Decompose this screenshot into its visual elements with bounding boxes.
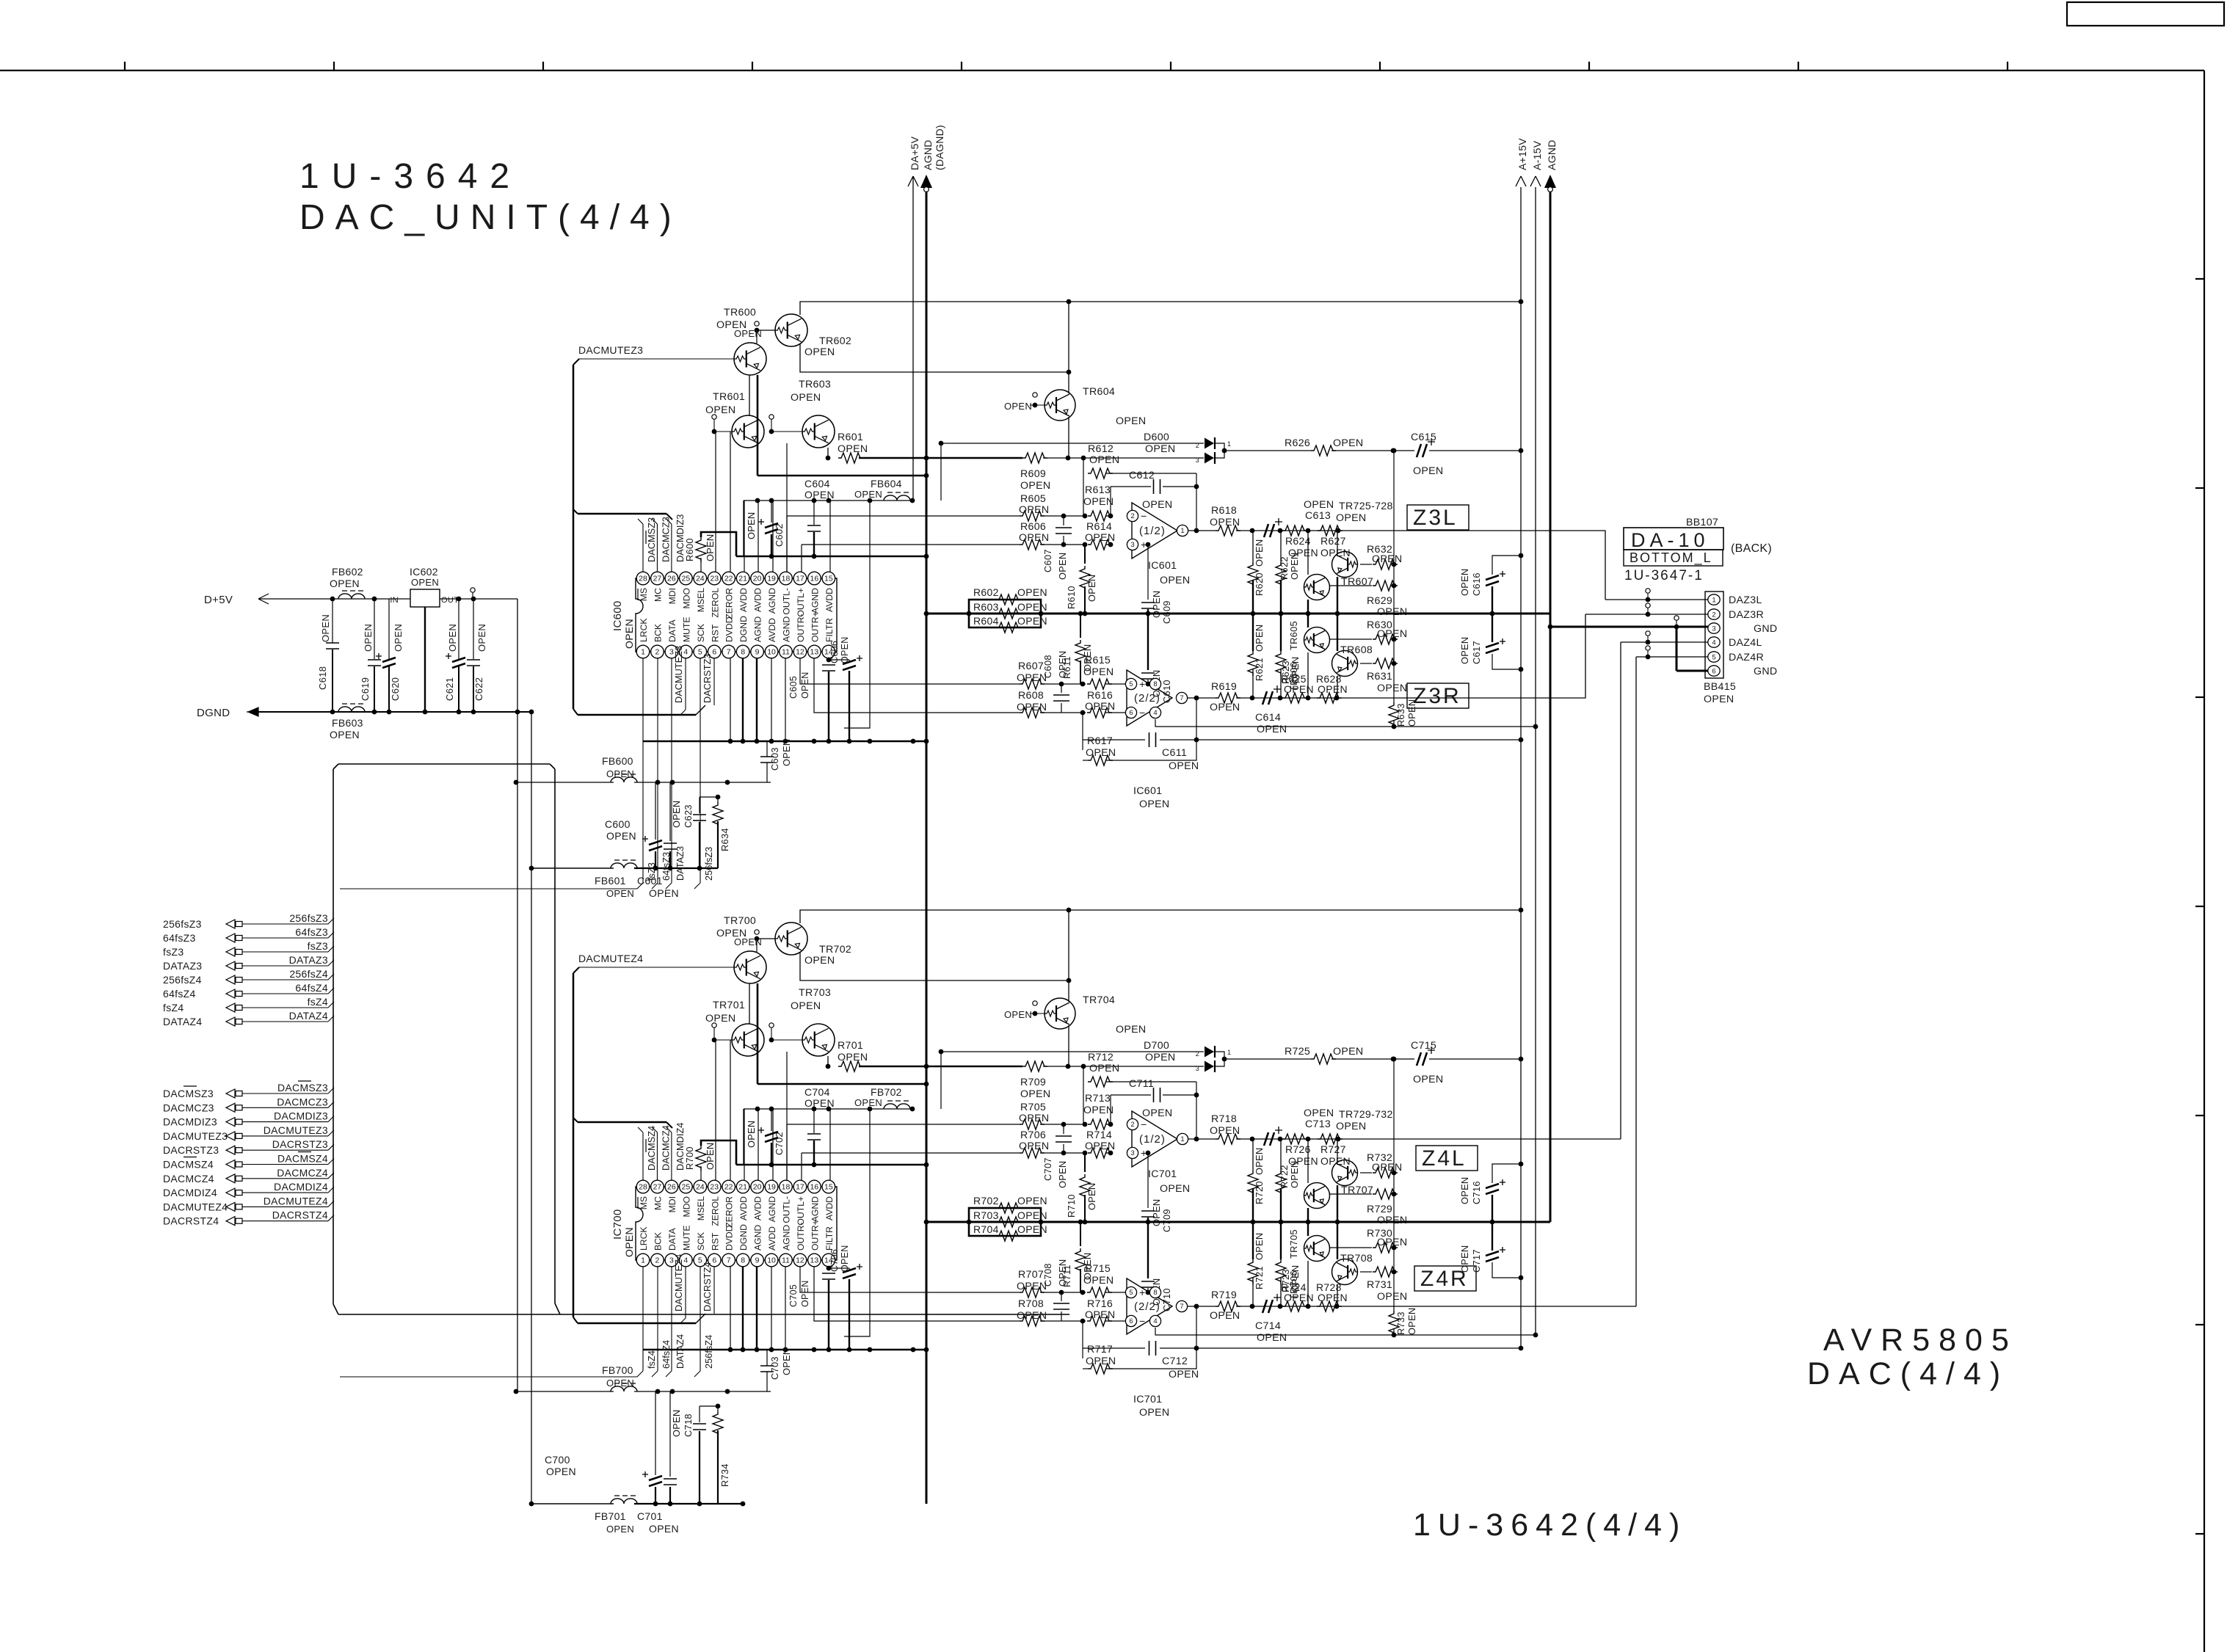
- svg-text:R619: R619: [1211, 681, 1237, 693]
- svg-text:R634: R634: [719, 828, 730, 851]
- ferrite FB700: [516, 1391, 614, 1392]
- power arrow DA+5V: [912, 176, 914, 501]
- svg-text:OPEN: OPEN: [1160, 1183, 1190, 1195]
- svg-text:fsZ4: fsZ4: [163, 1002, 184, 1014]
- resistor R606: [1020, 539, 1045, 550]
- svg-text:MSEL: MSEL: [696, 588, 706, 612]
- svg-text:OPEN: OPEN: [1169, 1369, 1199, 1380]
- op-amp IC701 (2/2): [1127, 1278, 1172, 1334]
- thick rail under R600: [736, 556, 926, 558]
- no-connect at IC602 out: [471, 588, 475, 592]
- svg-text:R716: R716: [1087, 1298, 1113, 1310]
- svg-text:OPEN: OPEN: [606, 1524, 634, 1535]
- svg-text:DATAZ4: DATAZ4: [163, 1016, 202, 1027]
- pin 7 IC700: [722, 1253, 735, 1267]
- svg-text:10: 10: [767, 648, 776, 657]
- svg-text:−: −: [1139, 1316, 1146, 1328]
- trunk branch to DACM nets: [578, 513, 666, 515]
- pin 26 IC700: [665, 1180, 678, 1193]
- svg-text:+: +: [1139, 679, 1146, 691]
- svg-text:1: 1: [1180, 527, 1184, 535]
- svg-text:DACRSTZ4: DACRSTZ4: [702, 1262, 713, 1311]
- pin 3 IC600: [665, 645, 678, 658]
- ferrite bead FB702: [884, 1104, 910, 1109]
- svg-text:23: 23: [710, 1183, 719, 1192]
- wire pin19-15 up: [772, 501, 774, 572]
- svg-text:DATAZ3: DATAZ3: [675, 846, 686, 881]
- power arrow AGND right: [1550, 187, 1552, 1222]
- FB rail: [744, 1108, 912, 1110]
- svg-text:25: 25: [682, 1183, 691, 1192]
- svg-text:OPEN: OPEN: [1704, 694, 1734, 705]
- svg-text:5: 5: [1712, 654, 1715, 662]
- svg-text:DAZ4R: DAZ4R: [1729, 652, 1764, 663]
- svg-text:OPEN: OPEN: [1086, 575, 1097, 602]
- svg-text:MDI: MDI: [667, 588, 677, 604]
- svg-text:A-15V: A-15V: [1531, 140, 1543, 170]
- svg-text:9: 9: [755, 1256, 760, 1265]
- capacitor C609: [1147, 545, 1149, 600]
- pin 22 IC600: [722, 572, 735, 585]
- svg-text:R710: R710: [1066, 1194, 1077, 1218]
- svg-text:64fsZ4: 64fsZ4: [163, 988, 196, 1000]
- net DACMCZ4: [656, 1132, 658, 1180]
- svg-text:R633: R633: [1395, 703, 1406, 727]
- svg-text:28: 28: [639, 1183, 647, 1192]
- capacitor C714: [1263, 1300, 1267, 1313]
- svg-text:DAZ3R: DAZ3R: [1729, 609, 1764, 621]
- svg-text:DACMCZ4: DACMCZ4: [660, 1125, 671, 1171]
- diode D600: [941, 443, 1204, 444]
- svg-text:OPEN: OPEN: [854, 1097, 882, 1108]
- wire TR602 emitter: [800, 952, 1069, 980]
- svg-text:256fsZ4: 256fsZ4: [703, 1335, 714, 1369]
- capacitor C600: [655, 782, 656, 840]
- resistor R629: [1329, 585, 1372, 586]
- svg-text:13: 13: [810, 1256, 819, 1265]
- svg-text:DACRSTZ4: DACRSTZ4: [163, 1215, 219, 1227]
- svg-text:R609: R609: [1020, 468, 1046, 480]
- svg-text:2: 2: [1130, 512, 1134, 520]
- wire DACMUTEZ3 to TR601 base: [579, 358, 734, 360]
- pin 13 IC700: [808, 1253, 821, 1267]
- svg-text:OPEN: OPEN: [1017, 1310, 1047, 1322]
- svg-text:64fsZ3: 64fsZ3: [295, 926, 328, 938]
- svg-text:OPEN: OPEN: [800, 672, 810, 699]
- svg-text:C614: C614: [1255, 712, 1281, 724]
- svg-text:C703: C703: [769, 1356, 780, 1380]
- pin 6 IC600: [708, 645, 721, 658]
- svg-text:1: 1: [1227, 440, 1231, 448]
- svg-text:C712: C712: [1162, 1356, 1188, 1367]
- svg-text:3: 3: [1196, 1065, 1199, 1072]
- net DACMCZ3: [656, 524, 658, 572]
- svg-text:2: 2: [1196, 1050, 1199, 1058]
- svg-text:AGND: AGND: [753, 1225, 763, 1251]
- collector bus vertical x1899: [1393, 451, 1395, 702]
- wire pin19-15 up: [772, 1109, 774, 1180]
- resistor R720: [1252, 1139, 1254, 1171]
- connector DA-10 box: [1624, 528, 1723, 550]
- svg-text:R615: R615: [1085, 655, 1111, 666]
- capacitor C620: [388, 599, 390, 659]
- resistor R725: [1240, 1058, 1311, 1060]
- svg-text:1: 1: [641, 1256, 645, 1265]
- resistor R630: [1329, 638, 1372, 640]
- svg-text:DACMUTEZ3: DACMUTEZ3: [264, 1124, 328, 1136]
- svg-text:IC701: IC701: [1148, 1168, 1177, 1180]
- svg-text:R707: R707: [1018, 1269, 1044, 1281]
- resistor R614: [1088, 539, 1113, 550]
- svg-text:256fsZ4: 256fsZ4: [289, 968, 328, 980]
- svg-text:C609: C609: [1161, 600, 1172, 624]
- svg-text:BCK: BCK: [653, 1232, 663, 1251]
- svg-text:TR601: TR601: [713, 391, 745, 403]
- svg-text:4: 4: [1153, 709, 1157, 717]
- svg-text:1: 1: [1180, 1135, 1184, 1143]
- svg-text:OPEN: OPEN: [1336, 512, 1366, 524]
- svg-text:OPEN: OPEN: [1284, 1292, 1314, 1303]
- pin7-11 wires down: [730, 658, 731, 741]
- wire pin17 OUTL+ to row A2: [801, 1153, 802, 1180]
- svg-text:OUTL+: OUTL+: [796, 1196, 806, 1226]
- svg-text:OPEN: OPEN: [1116, 415, 1146, 427]
- svg-text:1: 1: [641, 648, 645, 657]
- svg-text:R722: R722: [1279, 1165, 1290, 1188]
- net DACRSTZ3 pin6: [713, 658, 715, 705]
- wire IC602 ground lead: [424, 607, 426, 712]
- svg-text:DA-10: DA-10: [1631, 529, 1710, 551]
- capacitor C711 feedback: [1110, 1095, 1111, 1124]
- pin 3 BB415 GND: [1708, 623, 1720, 633]
- svg-text:R715: R715: [1085, 1263, 1111, 1275]
- svg-text:DA+5V: DA+5V: [909, 136, 920, 170]
- wire pin21-20 up to rail: [758, 1109, 759, 1180]
- svg-text:FB600: FB600: [602, 755, 633, 767]
- pin 6 IC700: [708, 1253, 721, 1267]
- svg-text:R731: R731: [1367, 1279, 1392, 1291]
- svg-text:R626: R626: [1285, 437, 1310, 449]
- capacitor C703: [766, 1350, 768, 1366]
- svg-text:fsZ3: fsZ3: [646, 862, 657, 881]
- svg-text:OPEN: OPEN: [705, 1013, 735, 1025]
- svg-text:OPEN: OPEN: [1004, 401, 1032, 412]
- svg-text:OPEN: OPEN: [781, 1348, 792, 1375]
- svg-text:OPEN: OPEN: [411, 577, 439, 588]
- svg-text:R709: R709: [1020, 1077, 1046, 1088]
- svg-text:OPEN: OPEN: [1083, 666, 1113, 678]
- svg-text:7: 7: [727, 1256, 731, 1265]
- ferrite FB600: [516, 782, 614, 783]
- resistor R733: [1389, 1311, 1399, 1336]
- svg-text:OPEN: OPEN: [671, 1410, 682, 1437]
- capacitor on pin16 rail: [813, 501, 815, 525]
- resistor R627: [1318, 525, 1343, 536]
- transistor TR704: [1045, 998, 1075, 1029]
- capacitor C701: [669, 1391, 671, 1477]
- capacitor C710: [1147, 1222, 1149, 1278]
- svg-text:OPEN: OPEN: [1257, 724, 1287, 735]
- svg-text:OPEN: OPEN: [1004, 1009, 1032, 1020]
- svg-text:OPEN: OPEN: [1019, 1113, 1049, 1124]
- svg-text:24: 24: [696, 1183, 705, 1192]
- svg-text:1U-3642: 1U-3642: [299, 157, 522, 196]
- svg-text:C615: C615: [1411, 432, 1436, 443]
- wire DGND rail: [258, 711, 531, 713]
- svg-text:AVR5805: AVR5805: [1823, 1322, 2018, 1358]
- svg-text:OPEN: OPEN: [1210, 1310, 1240, 1322]
- svg-text:OUTR+: OUTR+: [810, 611, 820, 642]
- pin 19 IC600: [765, 572, 778, 585]
- svg-text:DACRSTZ3: DACRSTZ3: [702, 653, 713, 703]
- svg-text:256fsZ3: 256fsZ3: [289, 912, 328, 924]
- pin 10 IC700: [765, 1253, 778, 1267]
- IC IC600 body: [636, 578, 837, 652]
- svg-text:TR708: TR708: [1340, 1253, 1373, 1265]
- svg-text:OPEN: OPEN: [1257, 1332, 1287, 1344]
- pin 21 IC700: [736, 1180, 749, 1193]
- wire D+5V vertical bus: [517, 599, 518, 1391]
- svg-text:OPEN: OPEN: [1089, 1063, 1119, 1074]
- svg-text:8: 8: [741, 1256, 745, 1265]
- svg-text:(BACK): (BACK): [1731, 542, 1772, 555]
- svg-text:15: 15: [824, 1183, 833, 1192]
- pin 5 IC700: [694, 1253, 707, 1267]
- svg-text:6: 6: [712, 648, 716, 657]
- net DACRSTZ4 pin6: [713, 1267, 715, 1314]
- resistor R711: [1080, 1222, 1081, 1246]
- svg-text:OPEN: OPEN: [393, 624, 404, 652]
- svg-text:OPEN: OPEN: [734, 936, 762, 947]
- svg-text:ZEROR: ZEROR: [724, 588, 735, 619]
- svg-text:OPEN: OPEN: [1017, 615, 1047, 627]
- capacitor C617: [1492, 614, 1493, 642]
- svg-text:OPEN: OPEN: [1377, 628, 1407, 640]
- svg-text:DACRSTZ4: DACRSTZ4: [272, 1209, 328, 1221]
- svg-text:OPEN: OPEN: [705, 1143, 716, 1170]
- svg-text:−: −: [1139, 707, 1146, 719]
- thick GND wire to pin3: [1550, 626, 1708, 628]
- svg-text:C622: C622: [473, 677, 484, 701]
- svg-text:OPEN: OPEN: [840, 636, 850, 663]
- svg-text:OPEN: OPEN: [1019, 532, 1049, 544]
- capacitor C623: [699, 797, 700, 813]
- svg-text:+: +: [1139, 1287, 1146, 1299]
- svg-text:R622: R622: [1279, 556, 1290, 580]
- capacitor C706: [843, 1268, 856, 1273]
- svg-text:OPEN: OPEN: [1333, 1046, 1363, 1058]
- svg-text:R631: R631: [1367, 671, 1392, 683]
- svg-text:OPEN: OPEN: [1145, 443, 1175, 455]
- wire TR602 emitter: [800, 343, 1069, 372]
- svg-text:OPEN: OPEN: [1057, 651, 1068, 678]
- svg-text:OPEN: OPEN: [1017, 702, 1047, 713]
- resistor R700: [696, 1146, 706, 1171]
- svg-text:TR602: TR602: [819, 335, 851, 347]
- wire pin23/22 up: [715, 1040, 716, 1180]
- svg-text:D600: D600: [1144, 432, 1169, 443]
- svg-text:BB107: BB107: [1686, 517, 1718, 528]
- svg-text:R613: R613: [1085, 484, 1111, 496]
- pin 28 IC700: [636, 1180, 650, 1193]
- svg-text:DACMDIZ3: DACMDIZ3: [163, 1116, 217, 1128]
- svg-text:C611: C611: [1162, 747, 1187, 759]
- svg-text:8: 8: [1153, 1289, 1157, 1297]
- capacitor C611 feedback: [1083, 739, 1145, 741]
- capacitor C622: [473, 599, 474, 659]
- resistor R726: [1282, 1134, 1307, 1144]
- svg-text:BCK: BCK: [653, 624, 663, 642]
- pin 16 IC600: [808, 572, 821, 585]
- svg-text:20: 20: [753, 1183, 762, 1192]
- svg-text:−: −: [1141, 511, 1147, 523]
- svg-text:OPEN: OPEN: [1085, 1140, 1115, 1152]
- pin 4 IC700: [680, 1253, 693, 1267]
- resistor R634: [717, 797, 719, 802]
- svg-text:OPEN: OPEN: [1057, 1161, 1068, 1188]
- thick wire R601 to R609: [859, 1066, 1022, 1068]
- pin 6 BB415 GND: [1708, 666, 1720, 676]
- svg-text:R733: R733: [1395, 1311, 1406, 1335]
- ferrite bead FB603: [338, 707, 365, 712]
- svg-text:R706: R706: [1020, 1129, 1046, 1141]
- power arrow AGND (DAGND): [926, 187, 928, 1504]
- pin 10 IC600: [765, 645, 778, 658]
- ferrite FB701: [531, 1503, 614, 1504]
- resistor R620: [1252, 531, 1254, 562]
- svg-text:DATAZ4: DATAZ4: [675, 1334, 686, 1369]
- svg-text:C604: C604: [804, 478, 830, 490]
- svg-text:AVDD: AVDD: [767, 1226, 777, 1251]
- trunk row to pin4/pin6: [578, 714, 696, 716]
- svg-text:OPEN: OPEN: [1254, 625, 1265, 652]
- svg-text:C616: C616: [1471, 572, 1482, 596]
- row out to A+15V: [1196, 739, 1521, 741]
- wire DACMUTEZ4 to TR601 base: [579, 967, 734, 968]
- svg-text:4: 4: [683, 1256, 688, 1265]
- svg-text:8: 8: [1153, 680, 1157, 688]
- svg-text:OPEN: OPEN: [606, 888, 634, 899]
- svg-text:4: 4: [683, 648, 688, 657]
- svg-text:OPEN: OPEN: [623, 1227, 635, 1257]
- svg-text:C716: C716: [1471, 1181, 1482, 1204]
- heavy AGND bus: [926, 613, 1550, 615]
- svg-text:FB700: FB700: [602, 1364, 633, 1376]
- svg-text:DACMCZ3: DACMCZ3: [163, 1102, 214, 1113]
- net DACMUTEZ4 pin4: [685, 1267, 686, 1318]
- pin 27 IC700: [651, 1180, 664, 1193]
- svg-text:OPEN: OPEN: [800, 1280, 810, 1307]
- svg-text:13: 13: [810, 648, 819, 657]
- svg-text:R719: R719: [1211, 1289, 1237, 1301]
- svg-text:MC: MC: [653, 588, 663, 602]
- svg-text:DVDD: DVDD: [724, 616, 735, 642]
- pin 9 IC700: [751, 1253, 764, 1267]
- svg-text:OPEN: OPEN: [320, 614, 331, 642]
- svg-text:R616: R616: [1087, 690, 1113, 702]
- thick wire R601 to R609: [859, 457, 1022, 459]
- resistor R628: [1317, 693, 1342, 703]
- svg-text:256fsZ4: 256fsZ4: [163, 974, 202, 986]
- svg-text:3: 3: [1712, 625, 1715, 633]
- svg-text:OPEN: OPEN: [1210, 1125, 1240, 1137]
- capacitor C619: [374, 599, 375, 659]
- svg-text:Z3R: Z3R: [1413, 684, 1461, 708]
- svg-text:OPEN: OPEN: [606, 768, 634, 779]
- svg-text:FB701: FB701: [595, 1510, 626, 1522]
- wire pin12 OUTR- to row B1: [800, 1267, 1020, 1292]
- resistor R615: [1087, 679, 1112, 689]
- transistor TR706: [1304, 1236, 1330, 1262]
- svg-text:DACMSZ4: DACMSZ4: [163, 1159, 214, 1171]
- svg-text:AGND: AGND: [782, 1225, 792, 1251]
- pin 17 IC700: [793, 1180, 807, 1193]
- svg-text:19: 19: [767, 575, 776, 583]
- svg-text:OPEN: OPEN: [854, 489, 882, 500]
- svg-text:OPEN: OPEN: [447, 624, 458, 652]
- svg-text:10: 10: [767, 1256, 776, 1265]
- svg-text:OPEN: OPEN: [1406, 1308, 1417, 1335]
- svg-text:2: 2: [1196, 442, 1199, 449]
- Z_R output route: [1407, 1306, 1636, 1307]
- border frame: [0, 70, 2204, 71]
- vertical feeds from lower section: [1620, 642, 1621, 1139]
- resistor R705: [1020, 1119, 1045, 1129]
- capacitor C612 feedback: [1110, 487, 1111, 516]
- net DACMDIZ3: [671, 524, 672, 572]
- resistor R722: [1280, 1139, 1282, 1171]
- svg-text:R702: R702: [973, 1195, 999, 1207]
- resistor R609: [1022, 453, 1047, 463]
- svg-text:OPEN: OPEN: [746, 1121, 757, 1148]
- capacitor C700: [655, 1391, 656, 1475]
- svg-text:OUTL-: OUTL-: [782, 1196, 792, 1223]
- resistor R732: [1360, 1172, 1372, 1173]
- svg-text:OPEN: OPEN: [1336, 1121, 1366, 1132]
- transistor TR604: [1045, 390, 1075, 421]
- svg-text:DAZ3L: DAZ3L: [1729, 594, 1762, 606]
- svg-text:OPEN: OPEN: [1377, 1237, 1407, 1248]
- svg-text:R600: R600: [684, 538, 695, 561]
- svg-text:OPEN: OPEN: [791, 1000, 821, 1012]
- pin 18 IC700: [780, 1180, 793, 1193]
- resistor R633: [1389, 702, 1399, 727]
- pin 5 IC600: [694, 645, 707, 658]
- svg-text:D700: D700: [1144, 1040, 1169, 1052]
- svg-text:OPEN: OPEN: [1017, 601, 1047, 613]
- svg-text:OPEN: OPEN: [1086, 1356, 1116, 1367]
- svg-text:OPEN: OPEN: [1254, 1148, 1265, 1175]
- pin1-3,5 verticals with net labels: [642, 658, 644, 883]
- svg-text:AGND: AGND: [767, 1196, 777, 1222]
- svg-text:OPEN: OPEN: [1142, 499, 1172, 511]
- svg-text:DGND: DGND: [197, 707, 230, 719]
- resistor R724: [1282, 1301, 1307, 1311]
- svg-text:OPEN: OPEN: [1210, 517, 1240, 528]
- svg-text:AVDD: AVDD: [824, 588, 835, 612]
- svg-text:R718: R718: [1211, 1113, 1237, 1125]
- svg-text:D+5V: D+5V: [204, 594, 233, 606]
- resistor R607: [1020, 679, 1045, 689]
- svg-text:fsZ3: fsZ3: [163, 946, 184, 958]
- svg-text:17: 17: [796, 575, 804, 583]
- transistor TR708: [1332, 1259, 1358, 1285]
- svg-text:DACMCZ4: DACMCZ4: [277, 1167, 328, 1179]
- boxed label Z3L: [1407, 505, 1469, 530]
- svg-text:R614: R614: [1086, 521, 1112, 533]
- svg-text:C715: C715: [1411, 1040, 1436, 1052]
- resistor R719: [1216, 1301, 1240, 1311]
